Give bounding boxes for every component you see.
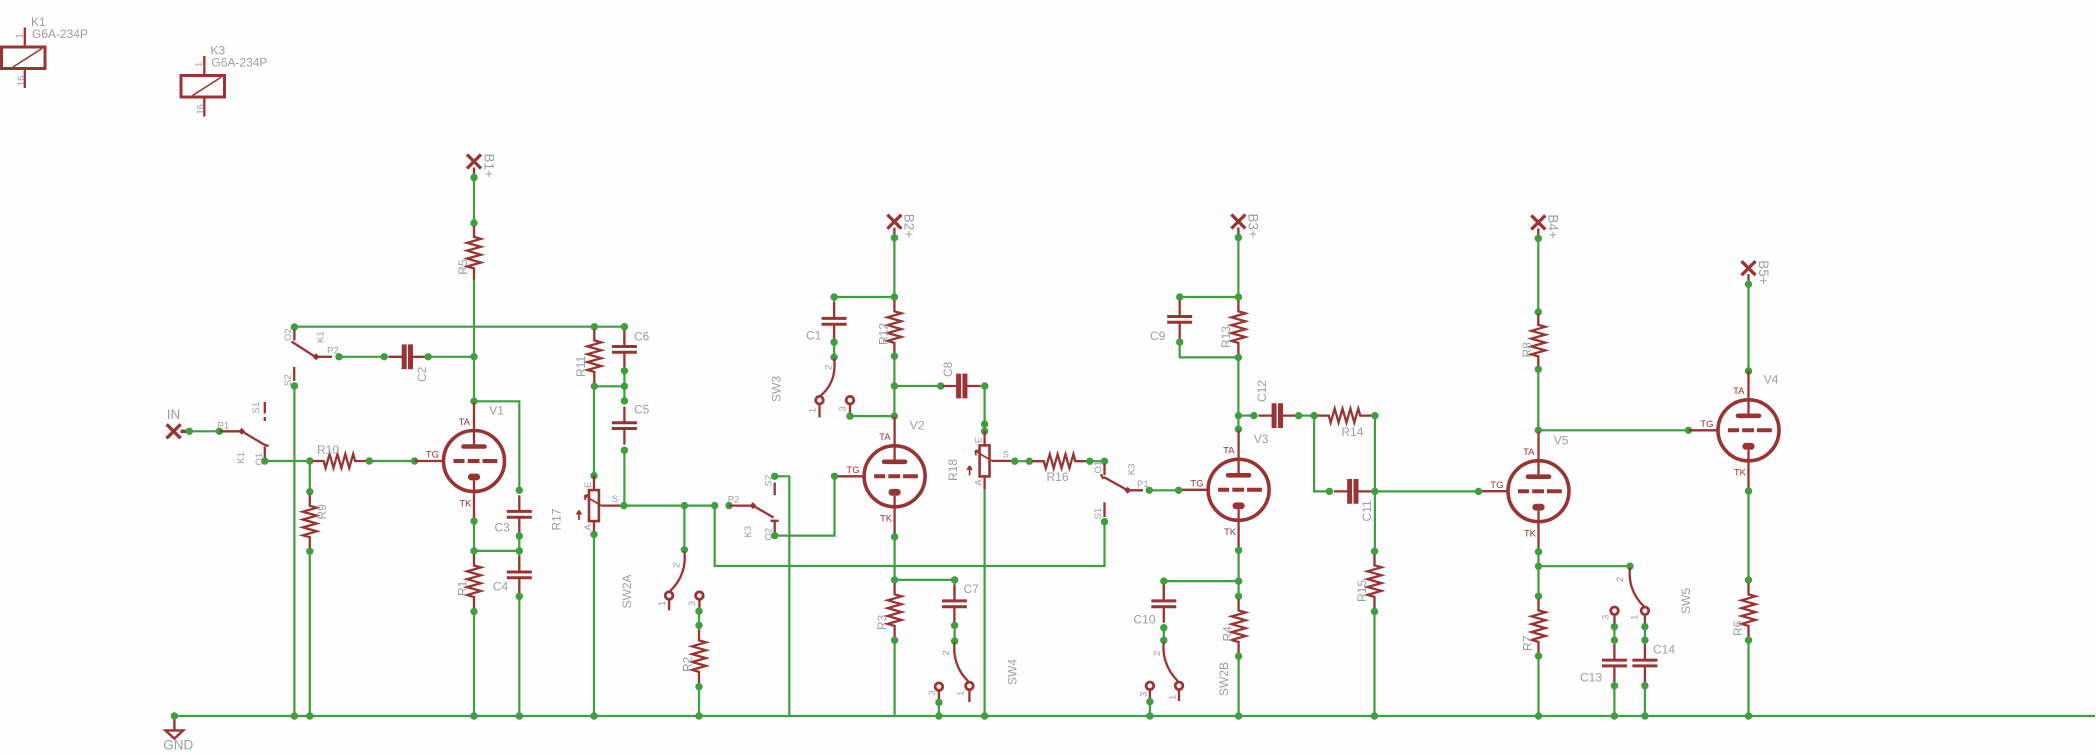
pin of R9: [306, 488, 313, 495]
capacitor C5: [612, 407, 637, 445]
wire IN to K1 P1: [189, 430, 219, 432]
wire C10 top stub: [1163, 581, 1165, 598]
junction C6 top: [621, 323, 628, 330]
svg-text:R1: R1: [456, 580, 470, 596]
svg-text:C7: C7: [964, 582, 980, 596]
pin 2 of SW2A: [681, 546, 688, 553]
svg-text:V4: V4: [1764, 373, 1779, 387]
resistor R2: [692, 629, 706, 683]
wire R9 to ground bus: [309, 551, 311, 716]
node B1+: [470, 174, 477, 181]
lever of K1 contact 1: [242, 431, 269, 446]
wire SW5 pin3 to C13: [1613, 627, 1615, 641]
pin of C10 bottom: [1160, 624, 1167, 631]
svg-text:C5: C5: [634, 403, 650, 417]
node SW3 pin 3: [846, 412, 853, 419]
junction cathode V3: [1235, 577, 1242, 584]
wire R15 to bus: [1373, 612, 1375, 717]
node SW4 pin 3: [935, 699, 942, 706]
svg-text:R4: R4: [1221, 626, 1235, 642]
pin TA of V4: [1745, 367, 1752, 374]
node O1 of K1: [261, 457, 268, 464]
svg-text:P1: P1: [218, 421, 230, 432]
resistor R7: [1532, 599, 1546, 653]
wire V5 cathode to R7: [1537, 566, 1539, 596]
svg-text:SW2B: SW2B: [1217, 662, 1231, 696]
wire R12 to V2 anode: [893, 356, 895, 416]
pin 2 of SW3: [830, 354, 837, 361]
svg-text:S2: S2: [764, 475, 775, 487]
junction R13 bottom: [1235, 354, 1242, 361]
svg-text:1: 1: [956, 691, 967, 696]
pin P2 of K1 contact: [335, 353, 342, 360]
pin 3 of SW4: [935, 683, 943, 691]
pin of R4 bottom: [1235, 652, 1242, 659]
svg-text:O1: O1: [254, 453, 265, 466]
wire cathode to C7: [895, 579, 955, 581]
svg-text:C11: C11: [1360, 500, 1374, 521]
pin TK of V2: [891, 533, 898, 540]
resistor R6: [1742, 583, 1756, 637]
lever of K1 contact 2: [292, 342, 317, 358]
pin 1 of SW2A: [665, 592, 673, 600]
junction R14 right: [1371, 412, 1378, 419]
resistor R14: [1318, 409, 1372, 423]
svg-text:3: 3: [687, 601, 698, 606]
resistor R1: [467, 554, 481, 608]
svg-text:1: 1: [1630, 615, 1641, 620]
svg-text:1: 1: [1168, 695, 1179, 700]
pin TK of V4: [1745, 487, 1752, 494]
wire R4 to bus: [1237, 656, 1239, 716]
junction wiper/K3: [711, 502, 718, 509]
pin P1 of K1 contact: [216, 428, 223, 435]
pin of C9: [1176, 293, 1183, 300]
pin of R9 bottom: [306, 548, 313, 555]
pin of C5 bottom: [621, 447, 628, 454]
wire V4 cathode to R6: [1747, 491, 1749, 580]
svg-text:E: E: [583, 482, 594, 488]
stub pin 3 of SW2A: [698, 599, 700, 608]
wire C2 to anode column: [428, 356, 474, 358]
wire C6 to R11 node: [594, 371, 624, 387]
lever of SW4: [954, 643, 968, 682]
svg-text:R10: R10: [317, 443, 339, 457]
wire C4 top stub: [518, 551, 520, 570]
wire R11 node to R17 E: [593, 386, 595, 475]
pivot of K1 contact 2: [313, 353, 320, 360]
wire grid node down to R9: [309, 461, 311, 492]
stub pin 1 of SW3: [818, 404, 820, 417]
contact S1 of K3: [1103, 502, 1105, 517]
pin 1 of SW3: [816, 396, 824, 404]
pin of C12 right: [1295, 412, 1302, 419]
svg-text:2: 2: [1152, 651, 1163, 656]
wire C7 to SW4: [953, 625, 955, 641]
pin TK of V1: [470, 517, 477, 524]
svg-text:TK: TK: [1224, 527, 1237, 538]
svg-text:TA: TA: [1733, 386, 1745, 397]
junction cathode V2: [891, 576, 898, 583]
supply flag B1+: [467, 155, 481, 169]
pin of C3: [516, 487, 523, 494]
svg-text:B3+: B3+: [1246, 214, 1261, 239]
node O1 of K3: [1101, 458, 1108, 465]
junction V1 anode: [470, 398, 477, 405]
junction R2/bus: [695, 712, 702, 719]
svg-text:B1+: B1+: [481, 154, 496, 179]
svg-text:R5: R5: [456, 259, 470, 275]
pin of C9 bottom: [1176, 338, 1183, 345]
svg-text:16: 16: [196, 104, 207, 115]
junction R9/R10: [306, 457, 313, 464]
resistor R5: [467, 226, 481, 280]
wire SW5 pin1 to C14: [1644, 627, 1646, 641]
node B2+: [891, 234, 898, 241]
svg-text:R8: R8: [1520, 342, 1534, 358]
wire B2+ down: [893, 237, 895, 297]
wire C13 to bus: [1613, 686, 1615, 716]
wire SW2B to bus: [1149, 702, 1151, 716]
triode V4: [1689, 371, 1779, 490]
pin of R4: [1235, 593, 1242, 600]
pin 3 of SW2A: [696, 592, 704, 600]
wire R6 to bus: [1747, 640, 1749, 716]
junction C2/anode column: [470, 353, 477, 360]
pin of R12 bottom: [891, 353, 898, 360]
svg-text:R7: R7: [1521, 635, 1535, 651]
pin of C12: [1250, 412, 1257, 419]
contact O2 of K1: [293, 330, 295, 341]
node GND: [171, 712, 178, 719]
wire O1 to grid node: [265, 460, 310, 462]
svg-text:C4: C4: [493, 580, 509, 594]
wire cathode node link: [474, 550, 519, 552]
junction C3/C4: [516, 547, 523, 554]
svg-text:IN: IN: [167, 407, 181, 422]
triode V1: [415, 402, 505, 521]
svg-text:G6A-234P: G6A-234P: [211, 55, 267, 69]
svg-text:16: 16: [16, 76, 27, 87]
relay contact K1 pole P2: [316, 356, 332, 358]
svg-text:TA: TA: [879, 432, 891, 443]
junction R11 bottom: [591, 383, 598, 390]
svg-text:1: 1: [657, 601, 668, 606]
svg-text:R3: R3: [875, 614, 889, 630]
svg-text:3: 3: [1139, 692, 1150, 697]
svg-text:G6A-234P: G6A-234P: [32, 27, 88, 41]
svg-text:C8: C8: [941, 361, 955, 377]
node IN: [186, 428, 193, 435]
wire R16 to K3 O1: [1090, 460, 1105, 462]
node B5+: [1745, 281, 1752, 288]
pin of R15 bottom: [1371, 608, 1378, 615]
svg-text:S2: S2: [283, 374, 294, 386]
resistor R16: [1033, 454, 1087, 468]
svg-text:TG: TG: [426, 450, 439, 461]
svg-text:V1: V1: [489, 403, 504, 417]
wire K3 S2 down: [775, 476, 790, 716]
relay contact K1 pole P1: [219, 430, 241, 432]
wire C8 branch: [894, 385, 940, 387]
capacitor C10: [1151, 585, 1176, 623]
wire C9 top stub: [1179, 297, 1181, 303]
svg-text:S: S: [612, 494, 618, 505]
wire C5 to wiper line: [623, 450, 625, 505]
pin of C13 bottom: [1611, 682, 1618, 689]
svg-text:C3: C3: [495, 521, 511, 535]
resistor R4: [1232, 599, 1246, 653]
svg-text:SW4: SW4: [1006, 659, 1020, 685]
svg-text:K3: K3: [1126, 464, 1137, 476]
pin TA of V3: [1235, 426, 1242, 433]
pin of C3 bottom: [516, 532, 523, 539]
pin of C7 bottom: [951, 622, 958, 629]
resistor R12: [887, 300, 901, 354]
pin of R1 bottom: [470, 608, 477, 615]
svg-text:R18: R18: [946, 459, 960, 481]
contact O2 of K3: [774, 521, 776, 533]
wire V3 cathode down: [1237, 550, 1239, 581]
ground symbol: [165, 718, 183, 739]
svg-text:TK: TK: [459, 498, 472, 509]
pin A of R17: [590, 531, 597, 538]
svg-text:P2: P2: [327, 346, 339, 357]
svg-text:A: A: [974, 479, 985, 486]
pin 2 of SW4: [951, 637, 958, 644]
stub pin 1 of SW5: [1644, 615, 1646, 624]
supply flag B4+: [1531, 215, 1545, 229]
wire C1 to SW3: [833, 342, 835, 357]
svg-text:R11: R11: [574, 356, 588, 377]
pin of C8: [937, 382, 944, 389]
svg-text:2: 2: [941, 650, 952, 655]
contact O1 of K1: [264, 447, 266, 459]
pin of R2: [695, 622, 702, 629]
capacitor C7: [942, 585, 967, 623]
svg-text:P1: P1: [1137, 479, 1149, 490]
wire R17 A to bus: [593, 534, 595, 716]
wire B1+ to R5: [473, 178, 475, 223]
wire S2 column to bus: [293, 386, 295, 716]
wire B5+ down: [1747, 282, 1749, 371]
svg-text:SW3: SW3: [770, 376, 784, 402]
svg-text:V2: V2: [910, 419, 925, 433]
svg-text:S1: S1: [1093, 508, 1104, 520]
svg-text:GND: GND: [163, 737, 193, 752]
wire C12 to R14: [1299, 415, 1315, 417]
pin of R3 bottom: [891, 637, 898, 644]
stub pin 1 of SW2A: [668, 599, 670, 610]
svg-text:C1: C1: [806, 329, 822, 343]
svg-text:1: 1: [15, 33, 26, 38]
pin of C5 top: [621, 397, 628, 404]
wire R1 to bus: [473, 612, 475, 717]
wire R18 A to bus: [983, 490, 985, 716]
wire R8 to V5 anode: [1537, 369, 1539, 430]
svg-text:R9: R9: [315, 504, 329, 520]
pin of R16 right: [1086, 458, 1093, 465]
wire K3 P1 to V3 grid: [1149, 489, 1178, 491]
wire wiper line to K3 S1: [715, 506, 1105, 566]
wire B4+ down: [1537, 237, 1539, 312]
svg-text:TG: TG: [1490, 480, 1503, 491]
wire B3+ node to C9: [1180, 296, 1239, 298]
pin of C7: [951, 576, 958, 583]
svg-text:TG: TG: [1190, 478, 1203, 489]
pin TG of V1: [411, 457, 418, 464]
capacitor C12: [1258, 403, 1296, 428]
node S1 of K3: [1101, 518, 1108, 525]
contact S2 of K3: [774, 483, 776, 496]
pin of C2 right: [425, 353, 432, 360]
wire V2 cathode down: [893, 537, 895, 580]
svg-text:B5+: B5+: [1756, 260, 1771, 285]
pin of R5: [470, 219, 477, 226]
pin TG of V3: [1175, 487, 1182, 494]
pin S wire of R18: [1011, 458, 1018, 465]
svg-text:2: 2: [1615, 577, 1626, 582]
wire C14 to bus: [1644, 686, 1646, 716]
svg-text:3: 3: [1601, 615, 1612, 620]
resistor R9: [303, 495, 317, 549]
wire anode to C3: [474, 401, 519, 490]
junction cathode/R1: [470, 547, 477, 554]
wire C12 left: [1238, 415, 1254, 417]
junction B3+ node: [1235, 293, 1242, 300]
junction C8 branch: [891, 382, 898, 389]
junction C12 branch: [1235, 412, 1242, 419]
svg-text:2: 2: [823, 365, 834, 370]
svg-text:TK: TK: [1734, 468, 1747, 479]
pin E of R17: [590, 472, 597, 479]
svg-text:1: 1: [808, 408, 819, 413]
junction R7/bus: [1535, 712, 1542, 719]
svg-text:3: 3: [837, 406, 848, 411]
pin E of R18: [981, 428, 988, 435]
junction wiper/SW2A: [681, 502, 688, 509]
capacitor C1: [822, 302, 847, 340]
pin 1 of SW5: [1641, 607, 1649, 615]
wire C10 to SW2B: [1163, 628, 1165, 641]
svg-text:O1: O1: [1093, 461, 1104, 474]
svg-text:R2: R2: [681, 656, 695, 672]
wire R3 to bus: [893, 640, 895, 716]
supply flag B3+: [1231, 215, 1245, 229]
capacitor C13: [1602, 644, 1627, 682]
pin 3 of SW2B: [1146, 682, 1154, 690]
svg-text:3: 3: [927, 690, 938, 695]
junction C12/R14: [1310, 412, 1317, 419]
svg-text:A: A: [583, 524, 594, 531]
junction cathode V5: [1535, 563, 1542, 570]
wire C11 to V5 grid: [1375, 490, 1479, 492]
svg-text:SW2A: SW2A: [620, 574, 634, 608]
pin 3 of SW5: [1611, 607, 1619, 615]
wire cathode to C10: [1164, 580, 1239, 582]
wire R11 node to C5: [623, 386, 625, 401]
resistor R10: [312, 454, 366, 468]
resistor R13: [1231, 300, 1245, 354]
node S2 of K3: [771, 473, 778, 480]
svg-text:P2: P2: [728, 495, 740, 506]
contact O1 of K3: [1103, 464, 1105, 475]
lever of K3 contact 1: [1101, 474, 1143, 490]
pin of R8 bottom: [1535, 366, 1542, 373]
svg-text:O2: O2: [283, 328, 294, 341]
node SW2A pin 3: [695, 608, 702, 615]
wire B2+ node to C1: [834, 296, 894, 298]
wire P2 to C2: [339, 356, 384, 358]
junction SW4/bus: [935, 712, 942, 719]
pin of R2 bottom: [695, 683, 702, 690]
svg-text:TG: TG: [846, 465, 859, 476]
lever of SW3: [821, 359, 835, 396]
junction R4/bus: [1235, 712, 1242, 719]
svg-text:C10: C10: [1134, 613, 1156, 627]
contact S2 of K1: [293, 367, 295, 381]
pin P1 of K3 contact: [1146, 487, 1153, 494]
wire C3 to cathode node: [518, 536, 520, 551]
wire C4 to bus: [518, 596, 520, 716]
wire V5 cathode down: [1537, 552, 1539, 567]
svg-text:V3: V3: [1254, 432, 1269, 446]
wire cathode to SW5: [1539, 565, 1631, 567]
junction V5 anode: [1535, 427, 1542, 434]
pin of R7 bottom: [1535, 652, 1542, 659]
wire C1 stub: [833, 297, 835, 303]
pin of C1 bottom: [830, 339, 837, 346]
svg-text:S: S: [1003, 449, 1009, 460]
lever of SW5: [1630, 568, 1644, 607]
relay coil K1: [2, 28, 46, 89]
node O2 of K3: [771, 532, 778, 539]
pin TK of V5: [1535, 548, 1542, 555]
svg-text:R16: R16: [1047, 470, 1069, 484]
pin of R10: [366, 457, 373, 464]
wire R7 to bus: [1537, 656, 1539, 716]
svg-text:R15: R15: [1355, 580, 1369, 602]
svg-text:E: E: [974, 437, 985, 443]
wire wiper line: [620, 505, 714, 507]
svg-text:TK: TK: [1524, 529, 1537, 540]
wire wiper to SW2A: [683, 506, 685, 550]
pin of C14 bottom: [1641, 682, 1648, 689]
junction B2+ node: [891, 293, 898, 300]
pin of C1: [830, 293, 837, 300]
capacitor C8: [943, 374, 981, 399]
pivot of K3 contact 2: [749, 502, 756, 509]
svg-text:B2+: B2+: [902, 214, 917, 239]
junction R15/bus: [1371, 712, 1378, 719]
resistor R8: [1531, 314, 1545, 368]
pin TG of V5: [1475, 488, 1482, 495]
wire SW2A to R2: [698, 611, 700, 625]
svg-text:1: 1: [194, 62, 205, 67]
wire ground bus: [174, 715, 2095, 717]
svg-text:SW5: SW5: [1679, 588, 1693, 614]
junction R6/bus: [1745, 712, 1752, 719]
relay coil K3: [181, 56, 225, 117]
node SW5 pin 1: [1641, 623, 1648, 630]
wire B3+ down: [1237, 237, 1239, 297]
svg-text:K1: K1: [236, 452, 247, 464]
wire R14 right down to R15: [1374, 416, 1376, 551]
pin of C2: [381, 353, 388, 360]
wire SW4 to bus: [938, 702, 940, 716]
wire R10 to V1 grid: [369, 460, 414, 462]
svg-text:TA: TA: [1523, 447, 1535, 458]
